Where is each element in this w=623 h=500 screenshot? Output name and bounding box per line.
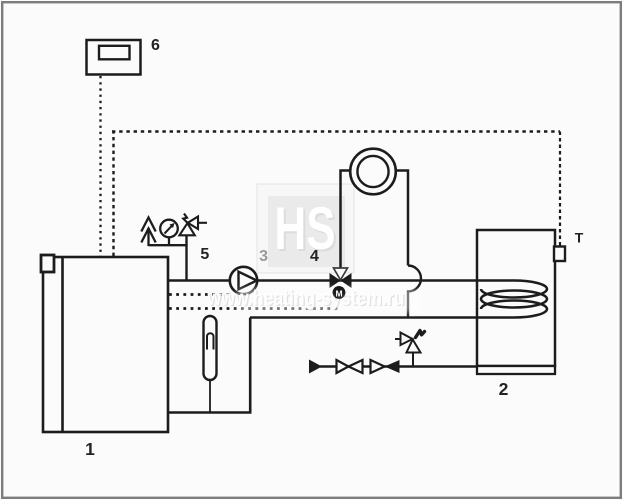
wire pump control (dotted) <box>169 293 232 296</box>
supply pipe <box>168 279 478 282</box>
safety valve SV2 <box>395 331 425 353</box>
air vent <box>141 218 155 247</box>
return pipe <box>250 316 478 319</box>
heating circuit circle symbol <box>350 149 396 195</box>
tee riser to safety valve <box>412 353 414 367</box>
inlet flow arrow <box>309 360 322 374</box>
valve actuator M overlay <box>333 286 346 299</box>
wire valve control (dotted) <box>169 307 338 310</box>
wire sensor horizontal (dotted) <box>112 130 560 132</box>
svg-text:HS: HS <box>275 195 336 262</box>
wire tank sensor drop (dashed) <box>559 132 561 247</box>
heating circuit riser left <box>341 171 409 269</box>
svg-text:4: 4 <box>310 248 319 265</box>
wire thermostat to boiler (dotted) <box>99 76 101 256</box>
check valve <box>371 360 400 373</box>
pipe bridge crossover <box>408 266 421 318</box>
svg-text:6: 6 <box>151 37 160 54</box>
heat exchanger coil <box>477 281 547 318</box>
return riser pipe <box>168 318 250 413</box>
svg-text:5: 5 <box>200 246 209 263</box>
watermark www.heating-system.ru <box>207 287 420 313</box>
svg-text:1: 1 <box>85 439 95 459</box>
safety group 5: riser <box>185 235 187 280</box>
expansion vessel <box>204 316 217 412</box>
svg-text:3: 3 <box>259 248 268 265</box>
thermostat U6 <box>87 40 141 75</box>
safety valve SV1 <box>179 214 207 236</box>
safety group header line <box>149 244 187 246</box>
svg-text:www.heating-system.ru: www.heating-system.ru <box>207 287 405 310</box>
tank temperature sensor T <box>554 247 565 262</box>
svg-text:2: 2 <box>499 379 509 399</box>
wire boiler sensor riser (dashed) <box>112 133 114 257</box>
cold water pipe <box>320 365 478 367</box>
svg-text:T: T <box>575 230 584 246</box>
shutoff valve <box>337 360 363 373</box>
tank 2 <box>477 230 555 374</box>
boiler 1 <box>41 255 168 432</box>
three-way valve V4 <box>330 268 352 288</box>
pump P3 <box>230 267 257 294</box>
pressure gauge <box>160 220 178 246</box>
valve actuator M <box>333 286 346 299</box>
